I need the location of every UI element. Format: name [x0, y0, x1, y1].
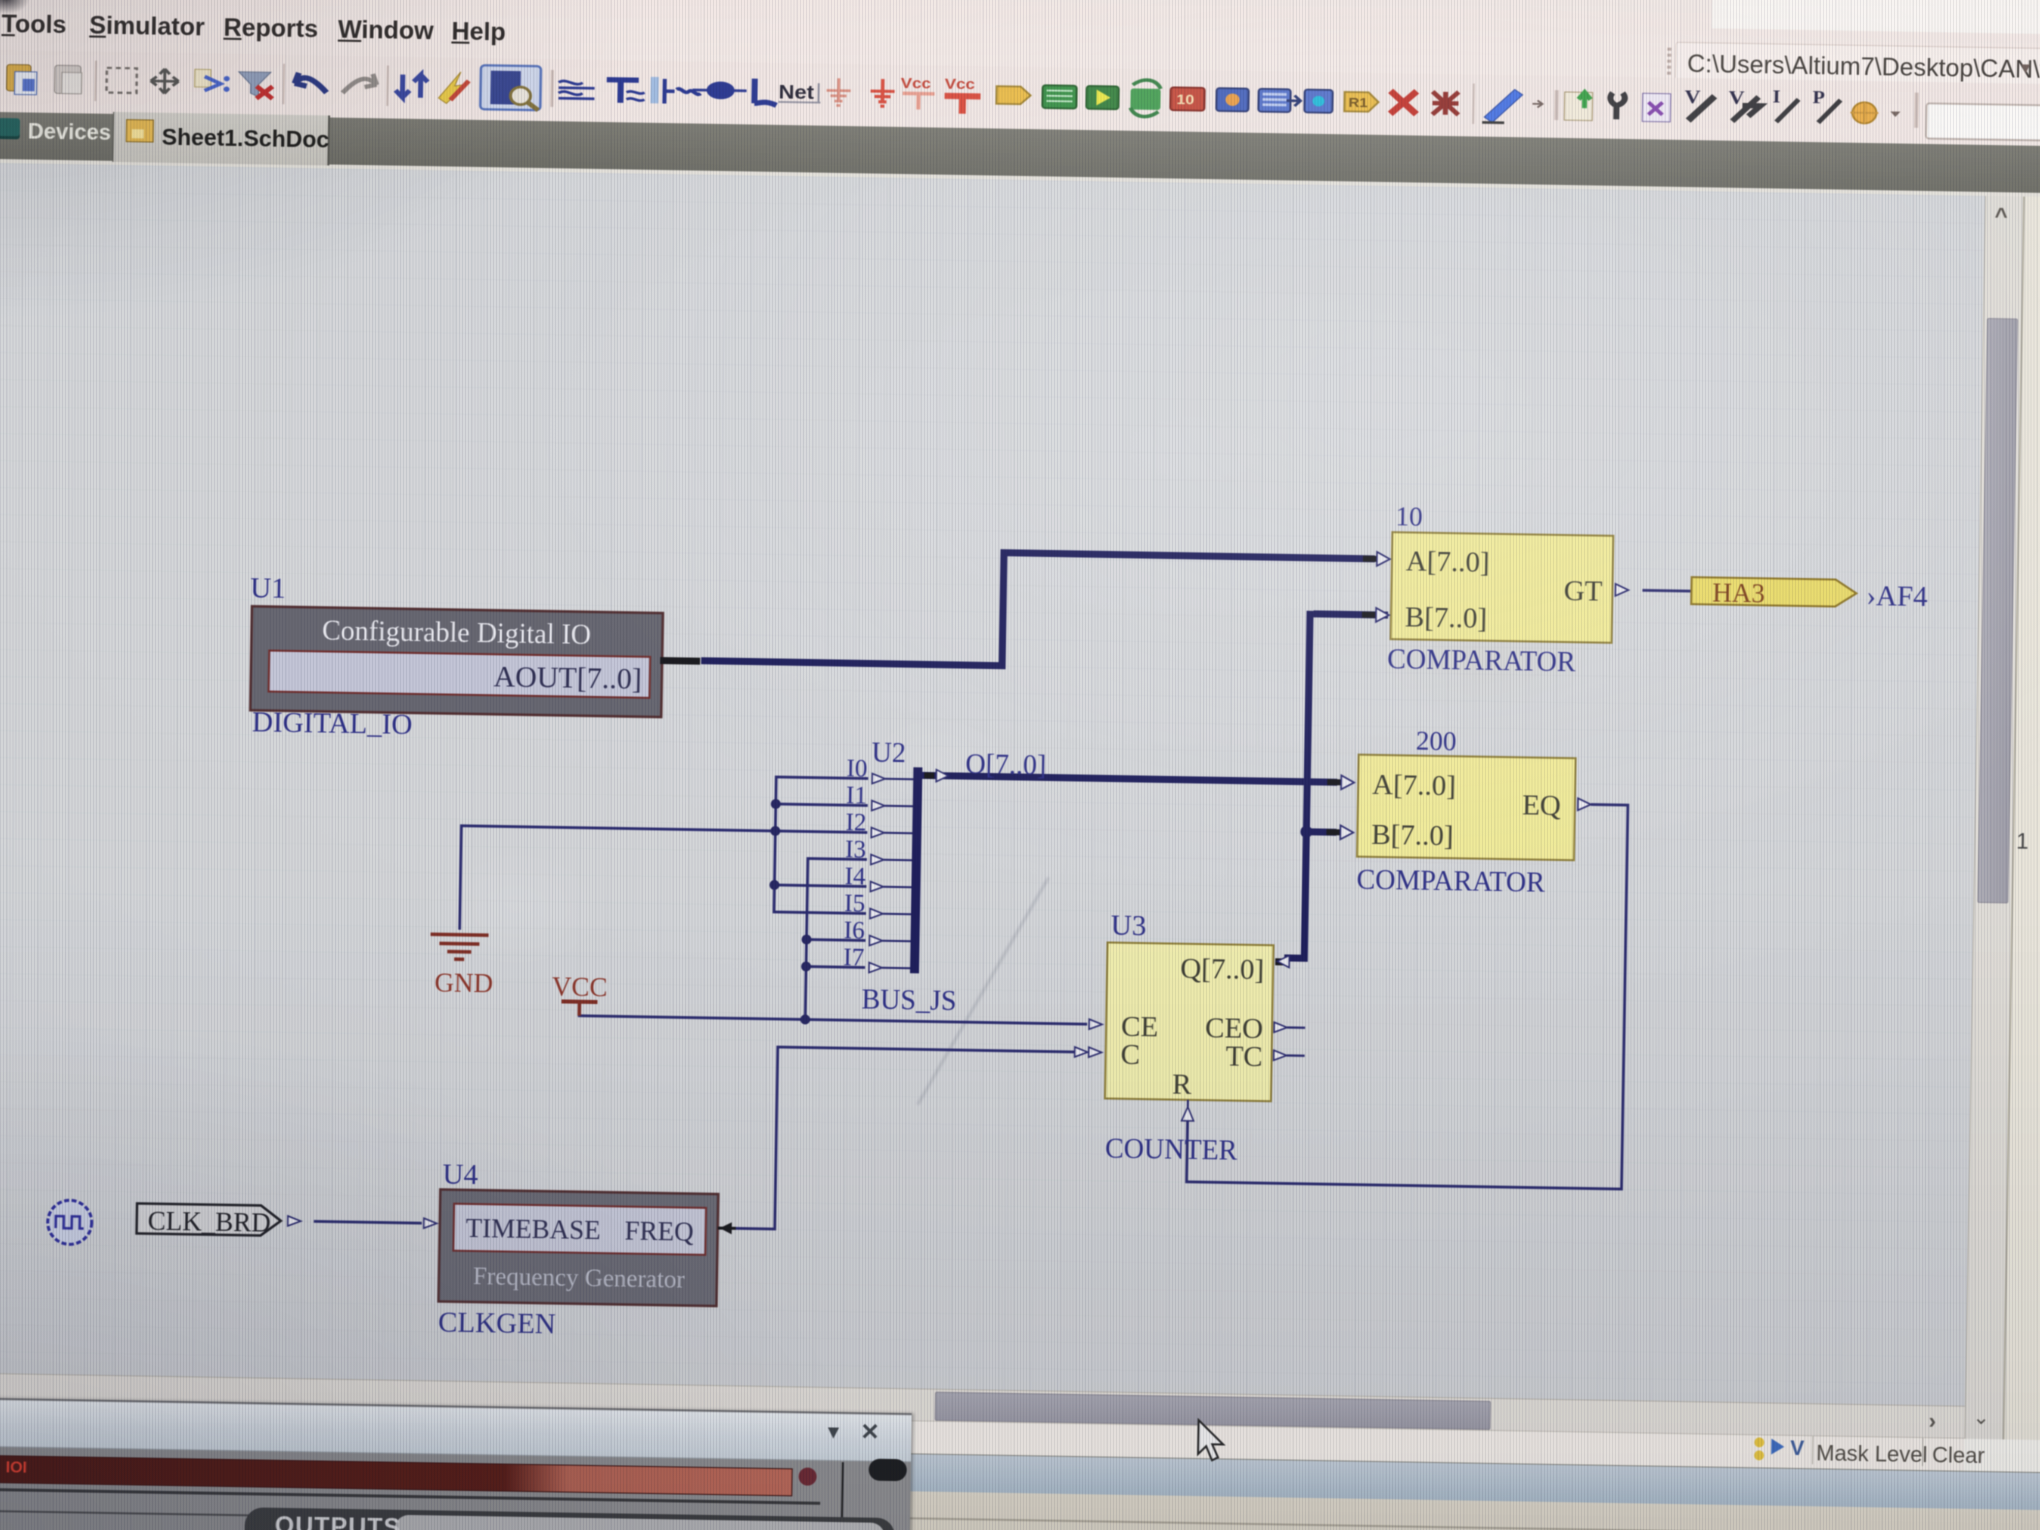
wire comparator U5 GT to port HA3	[1642, 589, 1691, 593]
wire comparator U6 EQ feedback to U3 R	[1187, 798, 1628, 1189]
wire VCC to U3 CE	[579, 1014, 1087, 1024]
svg-text:U1: U1	[250, 572, 286, 605]
Sheet tab	[112, 112, 330, 166]
white strip above app at top right	[1712, 0, 2040, 35]
pin C of U3 (clock)	[1075, 1047, 1102, 1057]
wire AOUT bus U1 to comparator U5 A[7..0]	[701, 548, 1375, 672]
svg-text:COMPARATOR: COMPARATOR	[1356, 865, 1545, 899]
pin EQ output of U6	[1578, 798, 1591, 810]
wire comparator U5 B[7..0] to vertical bus	[1314, 614, 1388, 615]
photo smudge artifacts	[917, 877, 1050, 1105]
pin I5	[870, 909, 911, 920]
power symbol VCC	[561, 999, 597, 1004]
node junction VCC rail on CE wire	[800, 1014, 810, 1024]
path combo in top row	[1675, 42, 2040, 94]
wire bus O[7..0] U2 to comparator U6 A[7..0]	[920, 775, 1337, 782]
pin of port CLK_BRD	[288, 1216, 301, 1226]
ground symbol GND	[430, 934, 488, 959]
svg-text:COUNTER: COUNTER	[1105, 1133, 1238, 1166]
node junction comparator U6 B tap	[1300, 826, 1312, 838]
tab strip	[0, 111, 2040, 195]
node junction I6	[801, 934, 811, 944]
pin I4	[870, 882, 911, 893]
svg-text:I7: I7	[843, 944, 864, 971]
svg-text:CLKGEN: CLKGEN	[438, 1306, 556, 1340]
svg-text:CLK_BRD: CLK_BRD	[148, 1206, 272, 1238]
svg-text:GND: GND	[434, 967, 493, 998]
pin I6	[869, 936, 910, 947]
component U2 BUS_JS bus joiner	[910, 767, 922, 973]
svg-text:AOUT[7..0]: AOUT[7..0]	[493, 660, 642, 695]
wire I4	[774, 885, 866, 887]
svg-text:Configurable Digital IO: Configurable Digital IO	[322, 615, 592, 650]
faint grid	[0, 163, 1985, 1406]
svg-text:DIGITAL_IO: DIGITAL_IO	[252, 706, 413, 741]
svg-text:›AF4: ›AF4	[1866, 580, 1928, 613]
wire CLK_BRD port to U4 TIMEBASE	[314, 1221, 422, 1223]
pin A[7..0] of U6	[1327, 775, 1354, 789]
pin TIMEBASE of U4	[424, 1218, 437, 1228]
pin R of U3 (reset, bottom)	[1182, 1100, 1194, 1121]
pin I7	[869, 963, 910, 974]
svg-text:GT: GT	[1563, 575, 1602, 608]
wire VCC rail with I3	[805, 859, 867, 1021]
svg-text:FREQ: FREQ	[624, 1216, 694, 1247]
wire I6	[807, 938, 866, 942]
pin FREQ of U4	[718, 1222, 736, 1234]
svg-text:I1: I1	[846, 782, 867, 809]
component U5 COMPARATOR (value 10)	[1391, 532, 1614, 643]
pin A[7..0] of U5	[1363, 552, 1390, 566]
svg-text:R: R	[1172, 1069, 1193, 1101]
node junction I4	[769, 880, 779, 890]
top-left dark corner blob	[0, 0, 30, 14]
menu items	[1, 10, 506, 47]
bottom-left overlay window	[0, 1396, 912, 1530]
svg-text:HA3: HA3	[1712, 577, 1765, 608]
pin TC of U3	[1274, 1050, 1305, 1061]
status bar	[0, 1403, 1964, 1471]
svg-text:TIMEBASE: TIMEBASE	[465, 1213, 600, 1245]
svg-text:A[7..0]: A[7..0]	[1406, 545, 1490, 578]
pin I2	[871, 828, 912, 839]
svg-text:EQ: EQ	[1522, 789, 1561, 822]
component U6 COMPARATOR (value 200)	[1357, 755, 1576, 861]
svg-text:U2: U2	[871, 738, 906, 770]
Devices chip icon	[0, 118, 20, 136]
node junction I1	[771, 799, 781, 809]
wire I1	[776, 804, 868, 806]
pin CE of U3	[1089, 1019, 1102, 1029]
wire U4 FREQ to U3 C	[734, 1046, 1075, 1234]
svg-text:200: 200	[1416, 726, 1457, 757]
svg-text:A[7..0]: A[7..0]	[1372, 769, 1456, 802]
node junction I7	[801, 961, 811, 971]
pin B[7..0] of U5	[1362, 608, 1389, 622]
component U1 Configurable Digital IO	[250, 606, 701, 717]
svg-text:10: 10	[1395, 501, 1422, 531]
pin B[7..0] of U6	[1326, 825, 1353, 839]
wire GND rail with I0 and I5	[774, 777, 868, 914]
svg-text:I5: I5	[844, 890, 865, 917]
pin I3	[871, 855, 912, 866]
svg-text:I0: I0	[846, 755, 867, 782]
menu bar band	[0, 0, 2040, 85]
pin O[7..0] of U2	[924, 769, 948, 781]
svg-text:Frequency Generator: Frequency Generator	[473, 1263, 686, 1294]
node junction I2	[770, 826, 780, 836]
schematic canvas	[0, 162, 1985, 1406]
svg-text:U4: U4	[442, 1159, 478, 1192]
svg-text:I4: I4	[845, 863, 867, 890]
taskbar blue band + desk	[0, 1436, 2040, 1512]
node junction bus O and vertical bus	[1302, 777, 1312, 787]
svg-text:B[7..0]: B[7..0]	[1371, 819, 1454, 852]
component U3 COUNTER	[1105, 942, 1274, 1102]
pin GT output of U5	[1615, 584, 1628, 596]
svg-text:I3: I3	[845, 836, 866, 863]
svg-text:O[7..0]: O[7..0]	[965, 749, 1046, 781]
svg-text:I2: I2	[845, 809, 866, 836]
wire vertical bus net Q[7..0]	[1284, 610, 1310, 958]
pin I0	[872, 774, 913, 785]
svg-text:Q[7..0]: Q[7..0]	[1180, 953, 1264, 986]
horizontal scrollbar	[0, 1371, 1965, 1438]
wire GND net to I2	[460, 826, 868, 937]
toolbar band	[0, 49, 2040, 148]
right side panel edge	[2002, 197, 2040, 1442]
pin I1	[872, 801, 913, 812]
svg-text:C: C	[1120, 1039, 1140, 1071]
wire comparator U6 B[7..0] stub	[1306, 828, 1336, 835]
svg-text:COMPARATOR: COMPARATOR	[1387, 644, 1576, 678]
progress bar	[0, 1453, 793, 1496]
vertical scrollbar	[1964, 196, 2024, 1439]
svg-text:U3: U3	[1111, 910, 1147, 943]
wire I7	[806, 965, 865, 969]
port HA3	[1691, 577, 1856, 610]
pin Q[7..0] of U3	[1275, 955, 1289, 967]
svg-text:B[7..0]: B[7..0]	[1405, 601, 1488, 634]
pin CEO of U3	[1274, 1022, 1305, 1033]
svg-text:TC: TC	[1225, 1040, 1263, 1073]
svg-text:I6: I6	[844, 917, 865, 944]
svg-text:BUS_JS: BUS_JS	[861, 984, 956, 1017]
clock source icon	[47, 1200, 92, 1245]
port CLK_BRD	[137, 1203, 282, 1237]
svg-text:VCC: VCC	[552, 971, 608, 1002]
component U4 CLKGEN frequency generator	[438, 1189, 718, 1306]
mouse cursor	[1194, 1418, 1235, 1467]
